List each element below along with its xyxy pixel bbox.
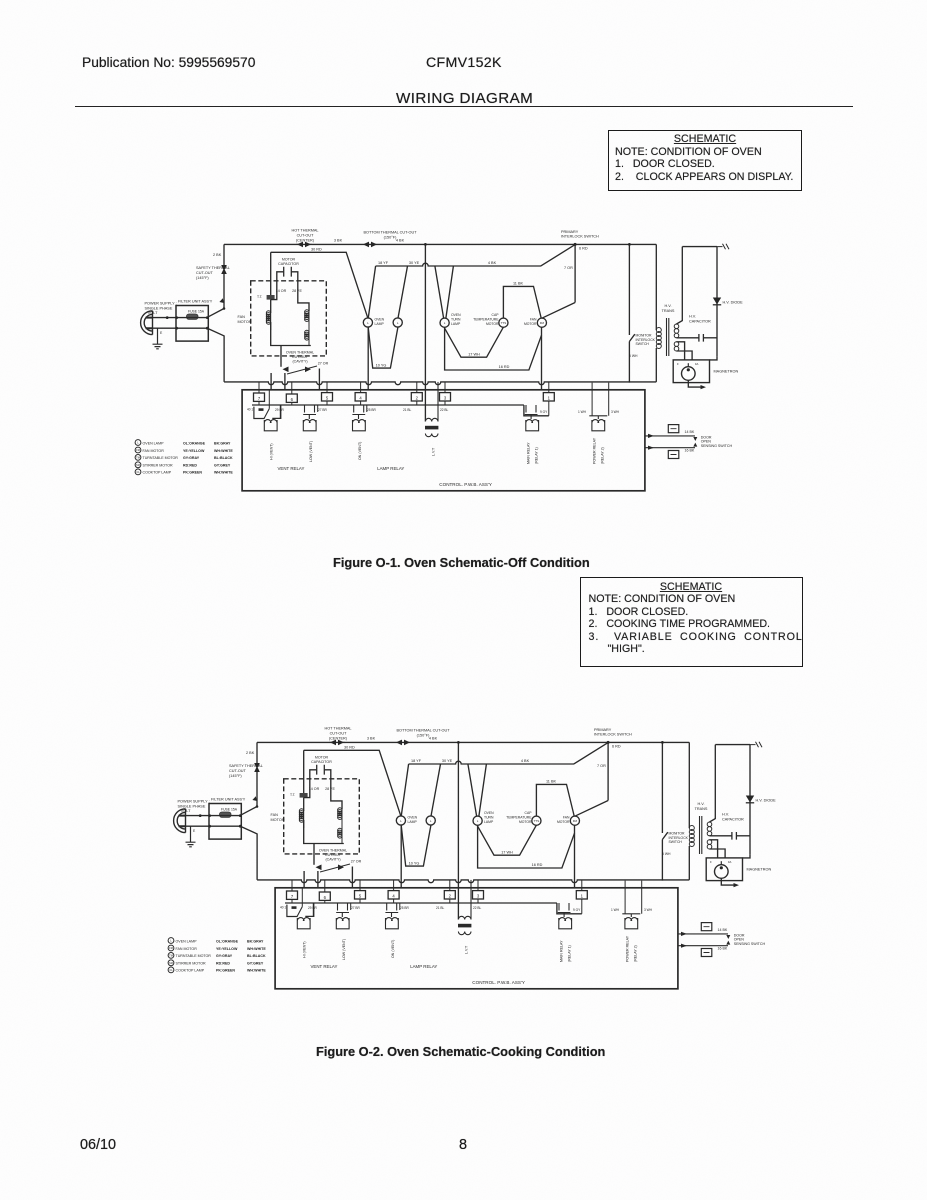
note box 1 (schematic off condition) — [608, 130, 802, 192]
figure O-1 caption — [333, 555, 590, 570]
oven schematic figure O-1 — [135, 229, 743, 491]
figure O-2 caption — [316, 1044, 605, 1059]
footer date — [80, 1137, 116, 1153]
title rule — [75, 106, 853, 107]
oven schematic figure O-2 — [168, 727, 776, 989]
footer page number — [459, 1137, 467, 1153]
header: model number — [426, 55, 502, 71]
header: publication number — [82, 55, 255, 70]
page title — [396, 90, 533, 107]
note box 2 (cooking condition) — [580, 577, 803, 667]
